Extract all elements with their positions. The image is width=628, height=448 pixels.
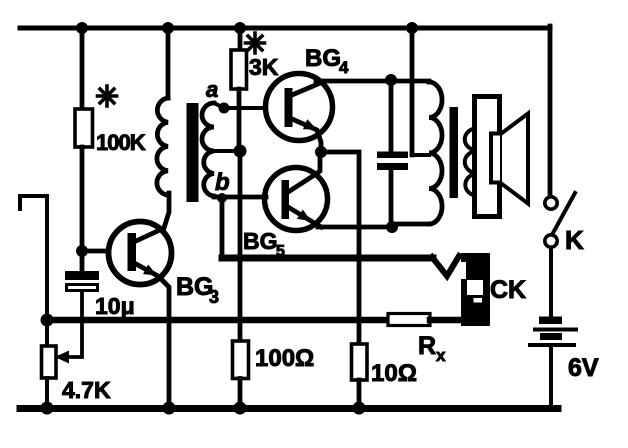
wire junction to capacitor 10u [80,251,85,271]
wire 3K lower lead to center tap [237,89,242,151]
wire bottom ground rail [20,405,558,412]
wire volume line to Rx [47,317,389,324]
node top rail junction at 100K [76,22,88,34]
svg-text:BG: BG [176,273,214,301]
switch K lever [553,193,575,233]
star marker for 3K [246,33,265,53]
resistor Rx [388,314,430,326]
wire Rx to jack [430,317,463,324]
switch K bottom contact [545,235,557,247]
transformer B1 primary winding [157,98,168,195]
wire secondary center tap [214,149,240,153]
speaker voice coil box [491,134,502,183]
jack CK slit [474,298,483,303]
jack CK window [467,280,483,295]
wire switch to battery [549,248,553,317]
transformer B1 secondary winding [202,103,214,196]
transformer B2 core [450,107,459,198]
node BG4 emitter BG5 collector [315,146,327,158]
wire left branch down to volume node [45,196,49,320]
star marker for 100K [98,86,117,106]
wire top supply rail [20,26,550,31]
node center tap [234,145,247,158]
svg-text:BG: BG [305,45,341,72]
transistor BG3 emitter stroke [136,264,169,408]
node primary bottom junction [386,221,398,233]
transformer B2 primary winding [429,82,442,224]
node primary top junction [385,74,397,86]
node bottom rail at BG3 emitter [163,402,176,415]
transistor BG5 emitter stroke [288,207,321,227]
battery cell1 short plate [539,317,562,325]
node top rail junction at 3K [234,22,246,34]
svg-text:BG: BG [243,228,278,254]
capacitor C 10u electrolytic positive plate [65,271,99,280]
wire BG4 collector to primary top [316,79,391,84]
wire 100K upper lead [80,28,85,109]
node BG3 base junction [76,245,88,257]
wire potentiometer bottom lead [45,378,49,408]
transistor BG3 base bar [128,233,137,271]
svg-text:10μ: 10μ [95,293,135,319]
resistor 100ohm [233,341,249,379]
transformer B2 secondary winding [465,128,477,196]
potentiometer 4.7K body [42,346,57,378]
jack CK left notch [461,262,466,279]
resistor 3K [231,50,247,89]
wire emitter jack line [222,255,433,262]
speaker frame [475,97,500,217]
wire right side rail [548,26,553,193]
transistor BG3 circle [109,222,172,285]
svg-text:3: 3 [209,287,219,307]
transformer B1 core [187,103,199,202]
svg-text:100K: 100K [96,130,146,155]
svg-text:10Ω: 10Ω [371,360,417,387]
wire output transformer center tap riser [410,28,415,155]
capacitor across primary bottom plate [377,163,408,170]
transistor BG5 circle [265,168,328,231]
wire secondary terminal b to BG5 base [214,195,266,200]
battery cell2 short plate [540,333,562,340]
wire 100K lower lead to BG3 base node [80,147,85,251]
wire center tap down to 100ohm [238,151,243,341]
switch K top contact [545,197,557,209]
svg-text:x: x [436,346,446,365]
svg-text:CK: CK [490,276,526,304]
node top rail junction at output transformer tap [406,22,418,34]
transistor BG5 base bar [282,180,290,219]
transistor BG5 emitter arrow [297,210,311,222]
wire secondary terminal a [214,103,266,108]
transistor BG3 collector stroke [136,193,169,241]
potentiometer wiper arrow [55,351,69,364]
jack CK body [461,253,490,326]
capacitor across primary top plate [377,152,408,159]
node bottom rail at 100ohm [234,402,247,415]
transistor BG3 emitter arrow [143,265,157,276]
transistor BG4 emitter arrow [303,119,317,129]
transistor BG4 emitter stroke [292,119,321,152]
node a [219,103,230,114]
speaker horn cone [502,114,528,204]
transistor BG4 base bar [285,88,293,127]
wire node to output primary bottom [392,222,429,227]
svg-text:b: b [215,169,230,196]
svg-text:4: 4 [339,58,349,77]
wire 3K upper lead [238,28,243,50]
capacitor C 10u negative plate [67,285,98,291]
wire 10ohm bottom lead [357,380,362,408]
transformer B1 primary riser [166,28,171,98]
wire coupling node to 10ohm [321,152,359,344]
svg-text:3K: 3K [249,54,279,80]
svg-text:6V: 6V [568,354,599,382]
svg-text:100Ω: 100Ω [255,345,314,372]
svg-text:5: 5 [276,243,285,260]
transistor BG4 circle [266,74,333,141]
wire input stub from detector [20,196,47,209]
node top rail junction at transformer [162,22,174,34]
wire b branch down to jack line [220,198,225,254]
wire jack plug V contact [432,256,459,276]
wire capacitor branch upper [389,83,394,152]
node bottom rail at 10ohm [353,402,366,415]
wire node to output primary top [391,79,429,84]
transistor BG5 collector stroke [288,152,320,192]
resistor 10ohm [352,344,368,380]
svg-text:a: a [206,77,218,102]
battery cell1 long plate [535,328,576,332]
transistor BG4 collector stroke [292,84,318,95]
wire capacitor to potentiometer wiper [58,292,82,357]
wire center tap to primary [412,153,429,157]
node volume line junction [41,314,54,327]
wire 100ohm bottom lead [238,379,243,409]
svg-text:K: K [565,225,584,255]
node bottom rail at potentiometer [41,402,54,415]
resistor 100K [75,109,93,147]
node b junction [217,193,227,203]
wire BG5 emitter to primary bottom node [318,225,392,230]
wire potentiometer top lead [45,320,49,346]
wire battery to bottom rail [549,347,553,406]
wire capacitor branch lower [389,170,394,227]
wire BG3 base [82,249,108,254]
svg-text:4.7K: 4.7K [62,377,111,403]
svg-text:R: R [418,332,436,360]
battery cell2 long plate [530,343,574,347]
